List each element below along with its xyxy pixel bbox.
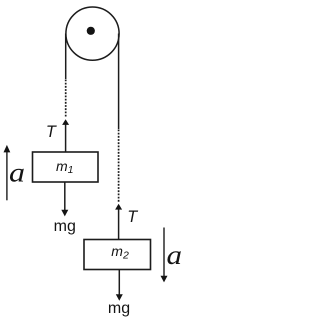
svg-text:a: a bbox=[9, 157, 25, 187]
svg-text:mg: mg bbox=[108, 300, 130, 317]
wire left rope dotted segment bbox=[65, 80, 67, 117]
weight arrow mg on m1 (down) bbox=[64, 182, 66, 211]
svg-text:a: a bbox=[167, 240, 182, 270]
mass box m2 bbox=[84, 240, 151, 270]
pulley axle dot bbox=[87, 27, 95, 35]
pulley wheel bbox=[66, 7, 119, 60]
wire right rope solid segment bbox=[118, 34, 120, 130]
wire right rope dotted segment bbox=[118, 130, 120, 203]
svg-text:mg: mg bbox=[54, 218, 76, 235]
weight arrow mg on m2 (down) bbox=[118, 270, 120, 296]
svg-text:T: T bbox=[46, 123, 57, 141]
mass box m1 bbox=[33, 152, 99, 182]
tension arrow T on m2 (up) bbox=[118, 209, 120, 240]
acceleration arrow a (left, up) bbox=[6, 151, 8, 200]
wire left rope solid segment bbox=[65, 34, 67, 80]
svg-text:T: T bbox=[127, 208, 138, 226]
acceleration arrow a (right, down) bbox=[163, 228, 165, 277]
tension arrow T on m1 (up) bbox=[65, 124, 67, 153]
